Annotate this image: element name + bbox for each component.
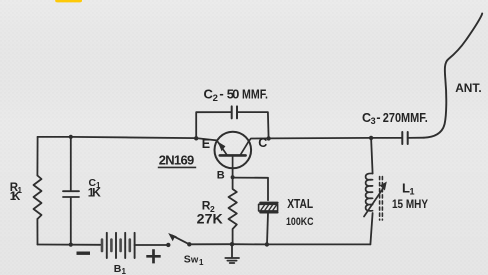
node B junction	[231, 175, 235, 179]
label battery minus	[77, 251, 91, 254]
svg-text:1: 1	[410, 187, 415, 197]
wire left vertical (top)	[36, 137, 38, 176]
svg-text:2: 2	[213, 93, 218, 104]
wire C node from transistor	[249, 138, 269, 141]
svg-text:MMF.: MMF.	[242, 87, 268, 101]
svg-text:C: C	[258, 136, 267, 150]
crystal XTAL 100KC	[259, 203, 278, 247]
node L1 junction	[369, 136, 373, 140]
svg-text:1: 1	[122, 267, 127, 275]
inductor L1	[364, 173, 387, 220]
wire battery to switch terminal	[135, 244, 168, 246]
wire bottom rail left	[38, 244, 101, 246]
svg-text:B: B	[217, 170, 225, 182]
svg-text:ANT.: ANT.	[455, 81, 482, 95]
resistor R1	[34, 176, 42, 220]
svg-text:-: -	[219, 86, 223, 101]
battery B1	[102, 233, 135, 258]
wire top-left rail	[38, 137, 197, 138]
wire left vertical (bottom)	[36, 219, 38, 245]
wire base to transistor	[232, 168, 234, 177]
antenna wire	[424, 14, 482, 138]
svg-text:15 MHY: 15 MHY	[392, 197, 428, 211]
svg-text:2N169: 2N169	[159, 153, 195, 168]
svg-text:XTAL: XTAL	[287, 197, 313, 211]
switch SW1	[166, 233, 191, 247]
wire E node into transistor	[196, 138, 217, 140]
wire L1 top lead	[371, 138, 373, 174]
yellow highlight tab	[55, 0, 82, 2]
wire L1 bottom lead	[370, 213, 372, 244]
svg-text:E: E	[202, 137, 210, 151]
wire bottom rail mid	[189, 243, 370, 245]
label battery plus	[146, 249, 160, 263]
wire main rail right	[269, 137, 402, 140]
ground	[225, 242, 239, 263]
capacitor C2 loop	[194, 106, 271, 140]
wire C3 to antenna bend	[408, 137, 424, 139]
svg-text:1K: 1K	[10, 191, 21, 203]
svg-text:27K: 27K	[197, 211, 223, 226]
svg-text:270MMF.: 270MMF.	[383, 111, 428, 125]
svg-text:100KC: 100KC	[286, 216, 314, 228]
capacitor C3	[402, 132, 407, 144]
svg-text:-: -	[376, 110, 380, 124]
node C1 top junction	[69, 135, 73, 139]
svg-text:1: 1	[199, 258, 204, 267]
transistor Q1 2N169	[215, 132, 252, 169]
wire B node to crystal	[233, 178, 268, 201]
svg-text:3: 3	[371, 116, 376, 126]
capacitor C1	[63, 137, 79, 245]
svg-text:Sw: Sw	[184, 254, 199, 266]
resistor R2	[229, 177, 237, 244]
node C1 bottom junction	[69, 243, 73, 247]
svg-text:50: 50	[227, 86, 240, 101]
svg-text:1K: 1K	[88, 185, 101, 199]
